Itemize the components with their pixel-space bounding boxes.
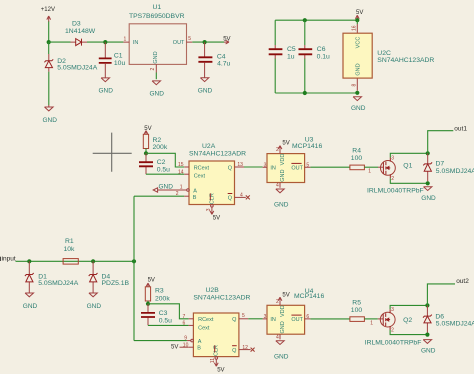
svg-text:IRLML0040TRPbF: IRLML0040TRPbF <box>367 187 424 194</box>
ground under D6 <box>421 340 436 355</box>
node E junction R3 C3 <box>146 302 150 306</box>
node D4 top junction <box>91 259 95 263</box>
ic U2B SN74AHC123ADR <box>193 287 250 356</box>
svg-text:5: 5 <box>306 162 309 168</box>
ground under D2 <box>43 105 58 124</box>
svg-text:VDD: VDD <box>280 154 286 166</box>
svg-text:16: 16 <box>351 25 357 31</box>
ground under D4 <box>87 293 102 310</box>
svg-text:Cext: Cext <box>198 325 210 331</box>
svg-text:GND: GND <box>23 303 38 310</box>
svg-text:D6: D6 <box>435 314 444 321</box>
power 5V at U3 VDD <box>278 141 290 150</box>
svg-text:4: 4 <box>276 334 279 340</box>
svg-text:OUT: OUT <box>173 40 185 46</box>
pin 6 Cext <box>183 321 210 332</box>
node GND U2C junction <box>355 91 359 95</box>
wire input net vertical <box>133 196 135 340</box>
svg-text:9: 9 <box>184 335 187 341</box>
svg-text:IN: IN <box>133 40 139 46</box>
svg-text:0.5u: 0.5u <box>157 167 170 174</box>
svg-text:SN74AHC123ADR: SN74AHC123ADR <box>193 295 250 302</box>
svg-text:U1: U1 <box>153 4 162 11</box>
resistor R3 200k <box>145 287 170 303</box>
wire 5V rail top of C5 C6 U2C <box>275 19 357 21</box>
svg-text:Q1: Q1 <box>403 162 412 169</box>
diode D4 PDZ5.1B <box>89 261 130 292</box>
svg-text:C1: C1 <box>114 53 123 60</box>
capacitor C1 10u <box>99 42 126 78</box>
svg-text:C5: C5 <box>287 46 296 53</box>
svg-text:1: 1 <box>368 168 371 174</box>
svg-text:VDD: VDD <box>280 305 286 317</box>
svg-text:5.0SMDJ24A: 5.0SMDJ24A <box>436 168 474 175</box>
svg-text:GND: GND <box>274 353 289 360</box>
wire U2A Q to U3 IN <box>244 166 263 168</box>
power 5V at U2B CLR <box>214 363 224 374</box>
node C6 bottom junction <box>303 91 307 95</box>
power 5V at U2C <box>355 10 363 20</box>
wire node E to U2B RCext <box>148 304 189 319</box>
ground under D1 <box>23 293 38 310</box>
node D7 bottom junction <box>426 181 430 185</box>
svg-text:GND: GND <box>153 51 159 63</box>
svg-text:GND: GND <box>150 91 165 98</box>
node C6 top junction <box>303 18 307 22</box>
svg-text:11: 11 <box>210 358 216 363</box>
pin 9 A <box>184 335 202 345</box>
svg-text:2: 2 <box>391 176 394 182</box>
svg-text:10u: 10u <box>114 60 126 67</box>
svg-text:3: 3 <box>206 208 212 211</box>
wire Q1 drain to node D7 top <box>390 153 427 157</box>
pin 12 Q-bar no-connect <box>232 345 255 354</box>
svg-text:5: 5 <box>242 313 245 319</box>
wire U1 GND pin to ground <box>155 73 157 80</box>
svg-text:0.1u: 0.1u <box>317 54 330 61</box>
wire ground rail under C5 C6 <box>275 92 357 94</box>
svg-text:1: 1 <box>124 37 127 43</box>
svg-text:Q2: Q2 <box>403 317 412 324</box>
svg-text:MCP1416: MCP1416 <box>294 293 324 300</box>
capacitor C4 4.7u <box>198 42 230 77</box>
svg-text:input: input <box>2 256 16 263</box>
wire R5 to Q2 gate <box>364 318 377 320</box>
wire node A to D2 <box>48 42 50 54</box>
svg-text:0.5u: 0.5u <box>159 318 172 325</box>
svg-text:6: 6 <box>183 321 186 327</box>
svg-text:2: 2 <box>391 328 394 334</box>
wire node A to D3 <box>49 41 71 43</box>
svg-text:5: 5 <box>188 36 191 42</box>
svg-text:R2: R2 <box>153 137 162 144</box>
svg-text:R1: R1 <box>65 238 74 245</box>
svg-text:8: 8 <box>352 84 358 87</box>
pin 15 RCext <box>178 162 209 171</box>
wire U4 OUT to R5 <box>310 318 350 320</box>
svg-text:GND: GND <box>280 321 286 333</box>
svg-text:R5: R5 <box>352 299 361 306</box>
wire C5 left leg <box>274 20 276 93</box>
svg-text:B: B <box>197 345 201 351</box>
svg-text:10: 10 <box>183 343 189 349</box>
ic U2C SN74AHC123ADR power unit <box>343 24 434 91</box>
node out2 junction <box>425 303 429 307</box>
node 5V U2C junction <box>355 18 359 22</box>
wire R3 to node E <box>147 301 149 304</box>
svg-text:Q: Q <box>228 196 233 202</box>
node out1 junction <box>426 151 430 155</box>
pin 7 RCext <box>183 314 214 323</box>
svg-text:GND: GND <box>198 87 213 94</box>
svg-text:6: 6 <box>306 314 309 320</box>
svg-text:GND: GND <box>355 63 361 75</box>
svg-text:7: 7 <box>183 314 186 320</box>
svg-text:100: 100 <box>351 307 363 314</box>
svg-text:U2A: U2A <box>202 143 216 150</box>
svg-text:5V: 5V <box>213 215 220 221</box>
svg-text:U2B: U2B <box>206 287 220 294</box>
diode D7 5.0SMDJ24A <box>423 153 474 181</box>
svg-text:10k: 10k <box>64 246 76 253</box>
svg-text:R3: R3 <box>155 288 164 295</box>
svg-text:GND: GND <box>87 303 102 310</box>
label out1 <box>454 125 467 132</box>
svg-text:R4: R4 <box>352 147 361 154</box>
svg-text:1: 1 <box>370 321 373 327</box>
pin 14 Cext <box>178 170 205 180</box>
svg-text:IN: IN <box>270 317 276 323</box>
capacitor C5 1u <box>269 45 296 61</box>
svg-text:100: 100 <box>351 155 363 162</box>
svg-text:C6: C6 <box>317 46 326 53</box>
svg-text:RCext: RCext <box>198 317 214 323</box>
svg-text:B: B <box>193 195 197 201</box>
svg-text:GND: GND <box>280 170 286 182</box>
diode D3 1N4148W <box>65 21 96 46</box>
capacitor C6 0.1u <box>299 45 331 61</box>
pin 10 B <box>183 343 201 352</box>
wire 5V to U2C VCC <box>356 20 358 24</box>
svg-text:GND: GND <box>159 183 174 190</box>
svg-text:OUT: OUT <box>291 166 303 172</box>
svg-text:A: A <box>193 189 197 195</box>
svg-text:GND: GND <box>421 195 436 202</box>
power 5V at U4 VDD <box>278 292 290 301</box>
ground flag at U2A pin 1 <box>153 183 186 192</box>
wire input net to pin 9 A <box>134 340 187 342</box>
svg-text:12: 12 <box>242 345 248 351</box>
svg-text:5V: 5V <box>217 368 224 374</box>
svg-text:Cext: Cext <box>194 174 206 180</box>
wire C2 to U2A Cext <box>146 173 184 175</box>
svg-text:U2C: U2C <box>377 50 391 57</box>
node C1 top junction <box>103 40 107 44</box>
svg-text:GND: GND <box>351 105 366 112</box>
power 5V at U1 output <box>223 36 230 44</box>
svg-text:D3: D3 <box>72 21 81 28</box>
svg-text:5V: 5V <box>356 10 363 16</box>
node B junction R2 C2 <box>144 151 148 155</box>
svg-text:3: 3 <box>264 314 267 320</box>
pin 1 A <box>180 185 198 195</box>
svg-text:D7: D7 <box>436 160 445 167</box>
svg-text:200k: 200k <box>153 144 168 151</box>
svg-text:5.0SMDJ24A: 5.0SMDJ24A <box>436 321 474 328</box>
pin 11 CLR <box>210 345 219 363</box>
svg-text:4: 4 <box>240 192 243 198</box>
svg-text:3: 3 <box>391 156 394 162</box>
svg-text:15: 15 <box>178 162 184 168</box>
driver U3 MCP1416 <box>263 136 323 188</box>
svg-text:5V: 5V <box>171 345 178 351</box>
svg-text:14: 14 <box>178 170 184 176</box>
svg-text:OUT: OUT <box>291 317 303 323</box>
svg-text:TPS7B6950DBVR: TPS7B6950DBVR <box>129 13 185 20</box>
node C4 top junction <box>203 40 207 44</box>
wire D2 to ground <box>48 72 50 106</box>
svg-text:GND: GND <box>421 348 436 355</box>
svg-text:SN74AHC123ADR: SN74AHC123ADR <box>189 150 246 157</box>
label 5V at pin 10 B <box>171 345 189 351</box>
svg-text:Q: Q <box>232 348 237 354</box>
svg-text:GND: GND <box>99 88 114 95</box>
svg-text:5V: 5V <box>282 292 289 298</box>
label out2 <box>456 278 469 285</box>
wire U1 OUT to 5V <box>192 41 224 43</box>
pin 13 Q <box>228 162 244 171</box>
svg-text:out1: out1 <box>454 125 467 132</box>
svg-text:5V: 5V <box>148 277 155 283</box>
ic U2A SN74AHC123ADR <box>189 143 246 204</box>
svg-text:IN: IN <box>270 166 276 172</box>
wire U2B Q to U4 IN <box>248 318 262 320</box>
svg-text:200k: 200k <box>155 295 170 302</box>
svg-text:+12V: +12V <box>41 7 55 13</box>
ground under U3 <box>274 189 289 209</box>
svg-text:5.0SMDJ24A: 5.0SMDJ24A <box>57 65 98 72</box>
label input <box>1 256 16 263</box>
node D1 top junction <box>27 259 31 263</box>
svg-text:VCC: VCC <box>355 37 361 49</box>
wire U3 OUT to R4 <box>310 166 350 168</box>
svg-text:Q: Q <box>228 165 233 171</box>
svg-text:1u: 1u <box>287 54 295 61</box>
wire C6 legs <box>304 20 306 93</box>
wire R2 to node B <box>145 149 147 154</box>
svg-text:2: 2 <box>176 191 179 197</box>
wire R4 to Q1 gate <box>364 166 378 168</box>
wire to label out1 <box>428 131 454 154</box>
wire input net to pin 2 B <box>134 195 184 197</box>
wire +12V to node A <box>48 22 50 43</box>
cursor crosshair <box>93 133 132 172</box>
ground under C1 <box>99 78 114 95</box>
svg-text:C3: C3 <box>159 310 168 317</box>
svg-text:IRLML0040TRPbF: IRLML0040TRPbF <box>365 340 422 347</box>
svg-text:4: 4 <box>276 183 279 189</box>
svg-text:Q: Q <box>232 317 237 323</box>
diode D2 5.0SMDJ24A <box>44 54 97 72</box>
driver U4 MCP1416 <box>263 288 325 340</box>
pin 4 Q-bar no-connect <box>228 192 250 201</box>
capacitor C3 0.5u <box>141 304 172 326</box>
resistor R2 200k <box>143 134 168 151</box>
svg-text:2: 2 <box>150 68 156 71</box>
ground under U1 <box>150 81 165 98</box>
node A junction <box>47 40 51 44</box>
resistor R4 100 <box>350 147 365 169</box>
svg-text:MCP1416: MCP1416 <box>292 143 322 150</box>
diode D6 5.0SMDJ24A <box>423 305 474 332</box>
ground under C4 <box>198 78 213 95</box>
svg-text:5V: 5V <box>282 141 289 147</box>
svg-text:4.7u: 4.7u <box>217 61 230 68</box>
svg-text:5V: 5V <box>223 36 230 42</box>
power 5V at U2A CLR <box>210 211 220 221</box>
svg-text:C2: C2 <box>157 159 166 166</box>
pin 5 Q <box>232 313 248 323</box>
pin 2 B <box>176 191 197 201</box>
power 5V at R2 <box>144 126 151 135</box>
capacitor C2 0.5u <box>139 153 170 174</box>
svg-text:C4: C4 <box>217 54 226 61</box>
resistor R5 100 <box>350 299 365 321</box>
svg-text:GND: GND <box>274 202 289 209</box>
svg-text:out2: out2 <box>456 278 469 285</box>
svg-text:1: 1 <box>180 185 183 191</box>
svg-text:3: 3 <box>264 162 267 168</box>
wire input net <box>16 260 135 262</box>
svg-text:A: A <box>198 339 202 345</box>
wire C3 to U2B Cext <box>148 324 189 326</box>
svg-text:GND: GND <box>43 117 58 124</box>
pin 3 CLR <box>206 193 216 211</box>
node D6 bottom junction <box>425 333 429 337</box>
wire Q1 source to node D7 bottom <box>390 178 427 183</box>
transistor Q1 IRLML0040TRPbF <box>367 156 424 195</box>
svg-text:1N4148W: 1N4148W <box>65 28 96 35</box>
ground under D7 <box>421 187 436 202</box>
svg-text:RCext: RCext <box>194 165 210 171</box>
regulator U1 TPS7B6950DBVR <box>123 4 192 73</box>
svg-text:13: 13 <box>237 162 243 168</box>
wire node B to U2A RCext <box>146 153 184 167</box>
diode D1 5.0SMDJ24A <box>25 261 79 292</box>
wire Q2 drain to node D6 top <box>390 305 427 309</box>
wire D3 to U1 IN <box>87 41 123 43</box>
ground under U4 <box>274 341 289 361</box>
resistor R1 10k <box>63 238 78 264</box>
ground under U2C <box>351 97 366 112</box>
svg-text:5.0SMDJ24A: 5.0SMDJ24A <box>38 280 79 287</box>
svg-text:3: 3 <box>391 307 394 313</box>
svg-text:SN74AHC123ADR: SN74AHC123ADR <box>377 57 434 64</box>
power 5V at R3 <box>146 277 155 287</box>
svg-text:PDZ5.1B: PDZ5.1B <box>102 280 130 287</box>
power +12V <box>41 7 55 22</box>
wire Q2 source to node D6 bottom <box>390 330 427 335</box>
node input vertical junction <box>132 259 136 263</box>
wire to label out2 <box>427 284 455 306</box>
transistor Q2 IRLML0040TRPbF <box>365 307 422 346</box>
